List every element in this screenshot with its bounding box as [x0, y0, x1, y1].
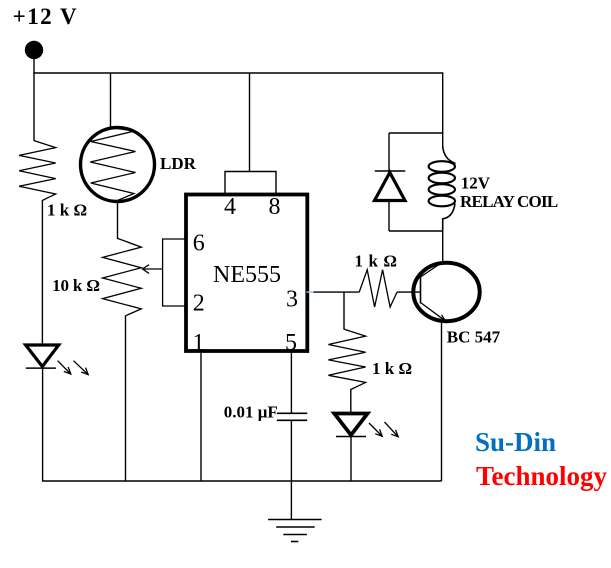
wire branch down to R4	[343, 292, 345, 329]
svg-text:LDR: LDR	[160, 154, 197, 173]
connector pins 4 to 8	[225, 172, 276, 195]
wire LDR to potentiometer R2	[117, 201, 119, 240]
wire emitter to ground rail	[441, 321, 443, 482]
svg-text:1: 1	[193, 330, 205, 356]
resistor R1 1 kOhm	[19, 141, 56, 201]
resistor R4 1 kOhm vertical	[328, 329, 365, 389]
wire ground rail	[42, 480, 442, 482]
resistor R3 1 kOhm horizontal	[359, 270, 397, 307]
wire R1 to LED D1	[41, 200, 43, 345]
svg-text:12V: 12V	[461, 174, 491, 193]
wire left branch to R1	[33, 73, 35, 141]
svg-text:+12 V: +12 V	[13, 4, 77, 29]
svg-text:1 k Ω: 1 k Ω	[372, 359, 412, 378]
wire pin 3 stub (blue)	[307, 291, 315, 293]
svg-text:Su-Din: Su-Din	[475, 427, 556, 457]
wire VCC feed to pins 4 and 8	[249, 73, 251, 172]
ground symbol	[268, 481, 322, 542]
wire R2 to ground rail	[125, 316, 127, 482]
wire R4 to LED D2	[350, 389, 352, 414]
svg-text:4: 4	[224, 194, 236, 220]
diode D3 flyback	[375, 171, 406, 201]
svg-text:0.01 μF: 0.01 μF	[224, 403, 278, 422]
svg-text:1 k Ω: 1 k Ω	[47, 201, 87, 220]
svg-text:8: 8	[269, 194, 281, 220]
wire diode branch bottom	[389, 230, 443, 232]
wiper arrow R2	[143, 265, 163, 274]
svg-text:3: 3	[286, 287, 298, 313]
svg-text:BC 547: BC 547	[447, 327, 501, 346]
node supply terminal dot	[25, 41, 43, 59]
wire LDR branch from top rail	[110, 73, 112, 128]
svg-text:2: 2	[193, 290, 205, 316]
wire top to diode D3	[388, 133, 390, 172]
transistor Q1 BC547	[413, 262, 479, 321]
LDR photoresistor	[81, 128, 155, 202]
wire pin 1 to ground rail	[200, 351, 202, 481]
wire dot to top rail	[33, 54, 35, 73]
wire pin 5 to capacitor C1	[290, 351, 292, 413]
svg-text:RELAY COIL: RELAY COIL	[460, 192, 558, 211]
wire bracket wiper to pins 6 and 2	[163, 239, 185, 306]
wire top supply rail	[33, 72, 443, 74]
wire D1 to ground rail	[42, 368, 44, 481]
LED D1	[26, 345, 89, 375]
svg-text:NE555: NE555	[213, 262, 281, 288]
wire diode branch top	[389, 132, 443, 134]
wire pin 3 to R3	[314, 291, 360, 293]
capacitor C1	[277, 413, 307, 420]
relay coil L1	[429, 146, 456, 231]
LED D2	[334, 414, 398, 437]
wire D2 to ground rail	[350, 437, 352, 482]
wire right branch from top rail	[442, 73, 444, 147]
potentiometer R2 10 kOhm	[103, 238, 142, 315]
wire diode to bottom branch	[388, 201, 390, 232]
svg-text:1 k Ω: 1 k Ω	[355, 251, 398, 270]
svg-text:10 k Ω: 10 k Ω	[52, 276, 100, 295]
wire C1 to ground rail	[290, 420, 292, 481]
wire collector to relay branch	[442, 231, 444, 263]
wire R3 to base of Q1	[397, 291, 421, 293]
IC U1 NE555 body	[186, 195, 307, 352]
svg-text:Technology: Technology	[476, 461, 608, 491]
svg-text:6: 6	[193, 230, 205, 256]
